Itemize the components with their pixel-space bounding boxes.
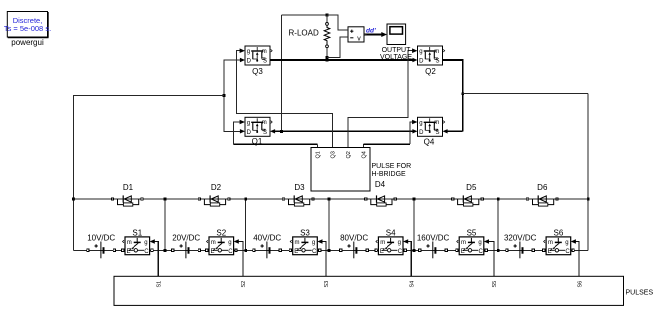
svg-text:D1: D1 — [123, 183, 134, 192]
wire load left vertical to bridge mid B — [281, 15, 283, 131]
wire arrow into Q3.g — [240, 48, 245, 53]
svg-text:S1: S1 — [132, 228, 142, 237]
svg-text:80V/DC: 80V/DC — [340, 233, 368, 242]
svg-text:dd’: dd’ — [366, 27, 376, 34]
svg-text:D3: D3 — [294, 183, 305, 192]
wire gate S3 — [322, 242, 326, 277]
switch S1 — [122, 237, 154, 255]
wire gate S5 — [488, 242, 494, 277]
svg-text:320V/DC: 320V/DC — [504, 233, 537, 242]
dc source 40V — [253, 242, 282, 259]
svg-text:Q2: Q2 — [346, 151, 352, 158]
svg-text:S3: S3 — [324, 281, 330, 288]
diode D1 — [111, 195, 143, 206]
wire V+ tap — [327, 15, 345, 30]
svg-text:v: v — [357, 35, 361, 42]
wire gate S2 — [238, 242, 243, 277]
wire arrow into Q4.D — [412, 129, 417, 133]
svg-text:Q3: Q3 — [252, 67, 263, 76]
wire gate Q1 — [317, 144, 319, 147]
svg-text:PULSES: PULSES — [626, 290, 654, 297]
svg-text:Q4: Q4 — [424, 138, 435, 147]
svg-text:20V/DC: 20V/DC — [172, 233, 200, 242]
wire junction drop 1 — [164, 199, 166, 250]
svg-text:Q1: Q1 — [316, 151, 322, 158]
svg-text:10V/DC: 10V/DC — [87, 233, 115, 242]
wire V to scope — [364, 34, 382, 36]
svg-text:Q4: Q4 — [361, 151, 367, 158]
scope OUTPUT VOLTAGE — [387, 24, 406, 45]
wire arrow into Q4.g — [412, 120, 417, 125]
svg-text:S6: S6 — [577, 281, 583, 288]
dc source 20V — [172, 242, 201, 259]
wire gate S1 — [154, 242, 158, 277]
svg-text:VOLTAGE: VOLTAGE — [380, 54, 412, 61]
wire left rail Q3.D down to Q1.D — [224, 60, 241, 131]
svg-text:D5: D5 — [466, 183, 477, 192]
node junction bridge mid B — [280, 130, 283, 133]
wire arrow into scope — [381, 32, 387, 37]
wire gate S4 — [407, 242, 411, 277]
wire arrow into Q3.D — [240, 58, 245, 62]
svg-text:S3: S3 — [300, 228, 310, 237]
switch S6 — [543, 237, 575, 255]
node junction far left diode row — [72, 198, 75, 201]
switch S3 — [289, 237, 321, 255]
svg-text:powergui: powergui — [11, 38, 44, 47]
wire branch to far left — [73, 95, 224, 250]
pulse generator H-bridge block — [311, 148, 370, 192]
diode D2 — [198, 195, 230, 206]
node junction resistor to rail — [326, 59, 329, 62]
wire arrow into Q2.g — [412, 48, 417, 53]
svg-text:R-LOAD: R-LOAD — [289, 29, 319, 38]
wire V- tap — [327, 37, 345, 57]
dc source 320V — [506, 242, 535, 259]
svg-text:S6: S6 — [554, 228, 564, 237]
diode D4 — [365, 195, 397, 206]
wire gate Q4 — [362, 144, 364, 147]
svg-text:160V/DC: 160V/DC — [417, 233, 450, 242]
wire resistor top stub — [326, 15, 328, 23]
resistor R-LOAD — [324, 23, 330, 48]
svg-text:S1: S1 — [157, 281, 163, 288]
svg-text:H-BRIDGE: H-BRIDGE — [372, 171, 407, 178]
wire arrow into Q2.D — [412, 58, 417, 62]
svg-text:D6: D6 — [537, 183, 548, 192]
wire diode row — [73, 198, 588, 200]
wire main rail Q3.S to Q2.D — [270, 59, 413, 61]
wire gate Q2 — [348, 51, 413, 148]
wire gate Q3 — [236, 51, 332, 148]
dc source 80V — [340, 242, 369, 259]
diode D3 — [282, 195, 314, 206]
wire junction drop 2 — [245, 199, 247, 250]
wire junction drop 3 — [328, 199, 330, 250]
switch S2 — [206, 237, 238, 255]
svg-text:40V/DC: 40V/DC — [253, 233, 281, 242]
svg-text:S2: S2 — [216, 228, 226, 237]
svg-text:S4: S4 — [386, 228, 396, 237]
mosfet Q2 — [418, 46, 445, 65]
svg-text:S5: S5 — [492, 281, 498, 288]
node junction left rail branch — [223, 94, 226, 97]
wire bridge mid B into Q1.S — [275, 130, 282, 132]
dc source 10V — [87, 242, 116, 259]
node junction far right diode row — [587, 198, 590, 201]
wire Q2.S to right rail — [443, 60, 463, 131]
node junction resistor bottom tap — [326, 56, 329, 59]
svg-text:D2: D2 — [211, 183, 222, 192]
svg-text:Q1: Q1 — [252, 137, 263, 146]
mosfet Q4 — [418, 117, 445, 136]
svg-text:Ts = 5e-008 s.: Ts = 5e-008 s. — [4, 24, 51, 33]
diode D6 — [526, 195, 558, 206]
wire junction drop 5 — [497, 199, 499, 250]
node junction right rail branch — [461, 92, 464, 95]
wire load top horizontal — [282, 14, 328, 16]
wire gate S6 — [575, 242, 579, 277]
wire source row — [73, 249, 588, 251]
mosfet Q1 — [245, 117, 272, 136]
diode D5 — [451, 195, 483, 206]
wire branch to far right — [463, 93, 589, 95]
svg-text:S2: S2 — [241, 281, 247, 288]
svg-text:Q2: Q2 — [425, 67, 436, 76]
svg-text:PULSE FOR: PULSE FOR — [372, 163, 412, 170]
node junction load top — [326, 14, 329, 17]
wire arrow into Q1.S — [270, 129, 275, 133]
wire bridge mid B to Q4.D — [282, 130, 414, 132]
switch S4 — [375, 237, 407, 255]
dc source 160V — [419, 242, 448, 259]
wire arrow into Q4.S — [443, 129, 448, 133]
svg-text:S5: S5 — [467, 228, 477, 237]
wire right rail into Q4.S — [447, 130, 463, 132]
wire junction drop 4 — [413, 199, 415, 250]
svg-text:Q3: Q3 — [331, 151, 337, 158]
wire far right vertical — [587, 94, 589, 251]
svg-text:D4: D4 — [375, 180, 386, 189]
wire resistor bottom stub — [326, 47, 328, 60]
svg-text:S4: S4 — [409, 281, 415, 288]
powergui block — [4, 12, 51, 38]
mosfet Q3 — [245, 46, 272, 65]
switch S5 — [456, 237, 488, 255]
pulses subsystem block — [114, 276, 624, 305]
wire arrow into Q1.D — [240, 129, 245, 133]
wire arrow into Q1.g — [240, 120, 245, 125]
voltage measurement U1 — [345, 27, 367, 43]
